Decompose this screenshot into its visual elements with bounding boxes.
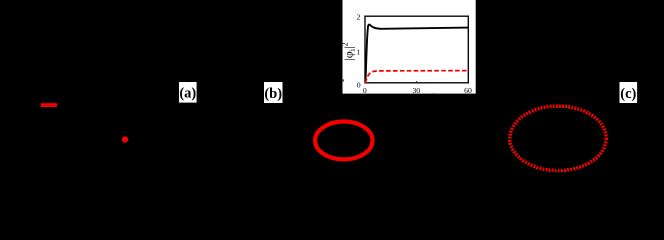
inset stray mark bottom [433,93,434,94]
inset x tick 30 [416,81,418,83]
red solid ellipse (panel b vortex ring) [315,122,372,160]
inset axes box [365,16,468,83]
inset stray mark left [343,79,344,81]
svg-text:60: 60 [464,86,472,95]
red dotted ellipse (panel c vortex ring) [510,106,606,171]
inset red dashed curve [365,71,468,83]
label (c) box [620,82,638,103]
svg-text:0: 0 [357,80,361,89]
svg-text:(c): (c) [620,86,636,102]
svg-text:1: 1 [356,47,360,56]
label (b) box [264,82,283,103]
svg-text:(b): (b) [264,86,282,102]
svg-text:(a): (a) [179,86,196,102]
label (a) box [179,82,197,103]
inset y tick 1 [365,49,367,51]
red dash marker (panel a, left) [41,103,57,107]
svg-text:0: 0 [363,86,367,95]
inset white background [343,0,476,94]
inset black curve [365,25,468,83]
svg-text:2: 2 [356,13,360,22]
red dot marker (panel a) [122,136,128,142]
svg-text:30: 30 [412,86,420,95]
